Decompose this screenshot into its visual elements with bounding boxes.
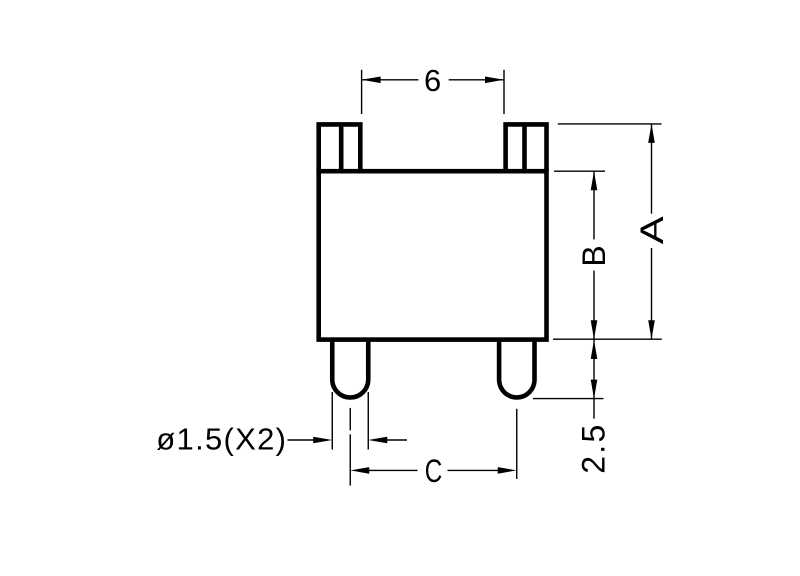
svg-text:6: 6 [424,63,441,98]
svg-text:ø1.5(X2): ø1.5(X2) [156,422,287,457]
svg-text:B: B [576,245,612,266]
svg-text:A: A [634,215,670,244]
svg-text:C: C [425,453,443,489]
svg-text:2.5: 2.5 [576,422,612,473]
